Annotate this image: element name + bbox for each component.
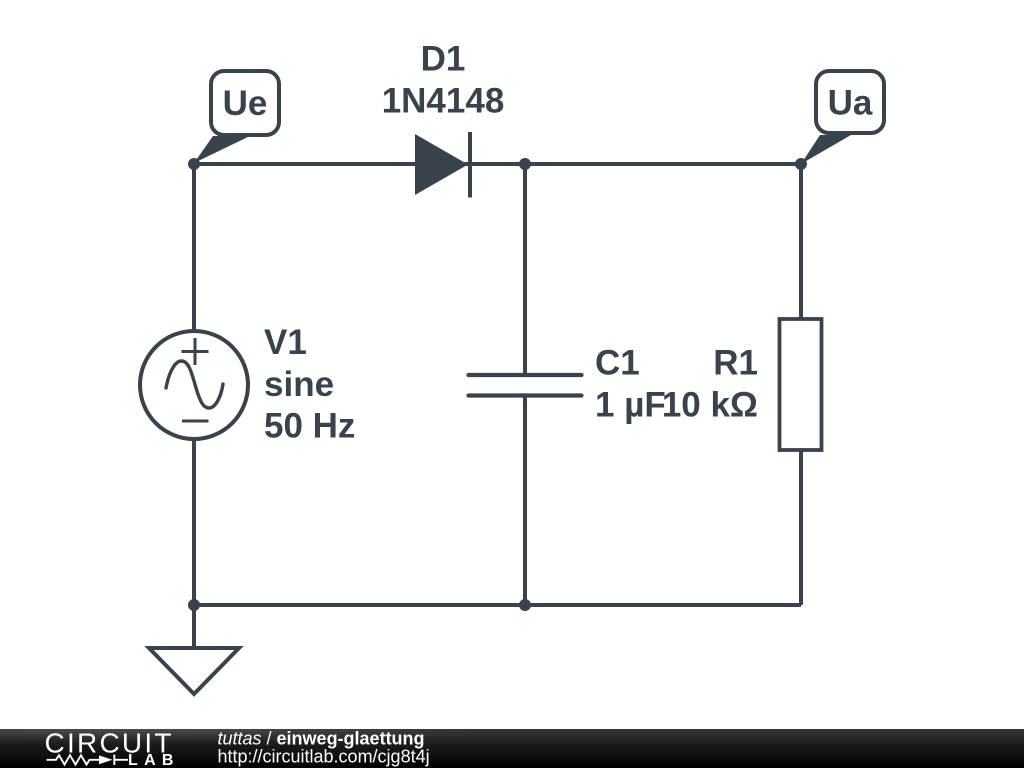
svg-text:50 Hz: 50 Hz: [264, 407, 355, 446]
svg-text:1 µF: 1 µF: [595, 386, 666, 425]
junction dot cap bottom: [519, 599, 531, 611]
footer bar: [0, 729, 1024, 768]
svg-text:V1: V1: [264, 323, 307, 362]
wire capacitor top leg: [523, 164, 527, 375]
svg-text:sine: sine: [264, 365, 334, 404]
junction dot ground rail left: [188, 599, 200, 611]
svg-text:http://circuitlab.com/cjg8t4j: http://circuitlab.com/cjg8t4j: [218, 746, 430, 766]
svg-text:D1: D1: [421, 40, 466, 79]
svg-text:C1: C1: [595, 344, 640, 383]
junction dot cap top: [519, 158, 531, 170]
CircuitLab logo schematic glyph: [47, 755, 129, 765]
diode D1: [415, 132, 470, 198]
voltage source V1: [140, 331, 248, 439]
capacitor C1: [469, 375, 582, 396]
svg-text:Ua: Ua: [828, 84, 873, 123]
svg-text:1N4148: 1N4148: [382, 82, 505, 121]
ground: [149, 605, 239, 694]
node Ue flag: [194, 71, 279, 163]
wire resistor bottom leg: [799, 450, 803, 605]
wire left vertical lower (V1 bottom to ground rail): [192, 438, 196, 605]
wire resistor top leg: [799, 164, 803, 320]
wire capacitor bottom leg: [523, 396, 527, 606]
junction dot Ua node: [795, 158, 807, 170]
wire left vertical upper (Ue node to V1 top): [192, 164, 196, 332]
svg-text:Ue: Ue: [223, 84, 268, 123]
node Ua flag: [801, 71, 884, 164]
svg-text:tuttas / einweg-glaettung: tuttas / einweg-glaettung: [218, 728, 425, 748]
svg-text:LAB: LAB: [128, 752, 180, 768]
svg-text:R1: R1: [713, 344, 758, 383]
wire top horizontal Ue to Ua: [194, 162, 801, 166]
resistor R1: [780, 319, 822, 450]
svg-text:10 kΩ: 10 kΩ: [662, 386, 758, 425]
wire bottom rail: [194, 603, 801, 607]
junction dot Ue node: [188, 158, 200, 170]
